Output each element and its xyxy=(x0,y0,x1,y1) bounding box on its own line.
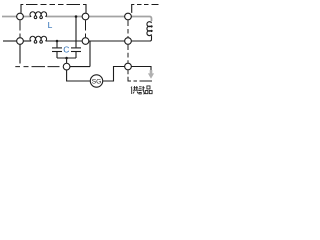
glyph 供 xyxy=(131,86,139,94)
wire: vertical from bottom rail down to node C1 level xyxy=(89,41,91,67)
glyph 試 xyxy=(139,86,145,94)
dashed link A1-B1 xyxy=(19,20,21,37)
wire: bottom rail black left segment xyxy=(3,40,17,42)
dashed box left edge below C3 xyxy=(128,70,131,81)
relay coil vertical leads xyxy=(131,36,152,41)
wire: bottom rail black node2-to-node3 xyxy=(89,40,126,42)
svg-text:C: C xyxy=(63,45,69,55)
dashed link B3-C3 xyxy=(127,45,129,63)
wire: capacitor bottom stubs xyxy=(56,52,58,58)
dashed box bottom edge xyxy=(134,80,153,82)
glyph 品 xyxy=(145,86,152,94)
dashed horizontal to node C1 xyxy=(15,66,59,68)
label 供試品 (DUT) drawn glyphs xyxy=(131,86,152,94)
node B2 xyxy=(82,38,89,45)
wire: top rail gray coil-to-node2 xyxy=(46,16,82,18)
box top corner vertical xyxy=(132,5,135,13)
wire: node C1 down to SG xyxy=(67,70,91,81)
node A2 xyxy=(82,13,89,20)
node B1 xyxy=(17,38,24,45)
node C1 xyxy=(63,63,70,70)
SG source circle xyxy=(90,75,102,87)
terminal circles xyxy=(17,13,132,87)
wire: top rail gray node2-to-node3 xyxy=(89,16,126,18)
wire: top rail gray circle-to-coil xyxy=(23,16,30,18)
dashed bridge top-left xyxy=(26,4,80,6)
wire: SG to node C3 xyxy=(103,67,126,82)
node A1 xyxy=(17,13,24,20)
dashed link A3-B3 xyxy=(127,20,129,37)
wire: node C3 to DUT arrow xyxy=(131,67,151,71)
inductor L top coil xyxy=(30,12,47,19)
node C3 xyxy=(125,63,132,70)
node B3 xyxy=(125,38,132,45)
capacitor C left plates xyxy=(52,47,62,49)
capacitor C left top stub xyxy=(56,41,58,47)
wire: capacitor bottom bus xyxy=(57,57,76,59)
wire: bus lead down to node C1 xyxy=(66,58,68,64)
wire: junction drop from top rail to capacitor C right xyxy=(75,17,77,48)
wire: top rail gray left segment xyxy=(2,17,152,22)
wire: top rail gray node3-to-relay corner xyxy=(131,17,152,22)
svg-text:SG: SG xyxy=(92,78,102,85)
inductor relay coil xyxy=(147,22,152,36)
junction dots xyxy=(56,15,78,59)
bridge corner verticals top-left dashed loop xyxy=(21,5,23,13)
node A3 xyxy=(125,13,132,20)
svg-text:L: L xyxy=(48,20,53,30)
wire: horizontal from that vertical to node C1 xyxy=(70,66,90,68)
dashed box top edge xyxy=(137,4,159,6)
wire: bottom rail black coil-to-node2 xyxy=(46,40,82,42)
arrow to DUT gray xyxy=(148,70,154,79)
wire: bottom rail black circle-to-coil xyxy=(23,40,30,42)
capacitor C right plates xyxy=(71,47,81,49)
wire: node B1 drop below xyxy=(19,44,21,63)
inductor L bottom coil xyxy=(30,36,47,43)
dashed link A2-B2 xyxy=(85,20,87,37)
